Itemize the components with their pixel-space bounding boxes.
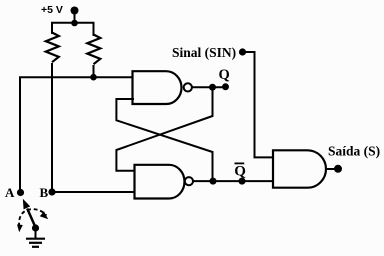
node A: [17, 189, 24, 196]
wire +5V stub: [74, 11, 76, 24]
wire U1 output to Q: [192, 86, 226, 88]
label Qbar: [234, 163, 246, 179]
wire A bus to upper NAND input: [20, 77, 133, 192]
wire U2 output to AND gate: [193, 180, 274, 182]
wire Qbar to upper NAND input (cross-coupling): [116, 99, 212, 181]
wire node B to lower NAND input: [52, 191, 137, 193]
label Q: [219, 67, 230, 83]
node SIN terminal: [239, 48, 246, 55]
svg-text:Q: Q: [219, 67, 230, 83]
svg-text:Q: Q: [234, 164, 246, 180]
junction Qbar feedback: [210, 178, 217, 185]
node Qbar terminal: [239, 178, 246, 185]
node B: [48, 188, 55, 195]
resistor R1: [46, 33, 59, 63]
wire U3 output: [326, 168, 335, 170]
resistor R2: [87, 35, 100, 65]
wire SIN to AND gate input: [243, 52, 275, 157]
nand U1: [133, 71, 182, 104]
bubble U2: [185, 177, 193, 185]
label +5 V: [41, 4, 63, 16]
svg-text:+5 V: +5 V: [41, 4, 63, 16]
+5V terminal dot: [71, 7, 79, 15]
svg-text:A: A: [5, 185, 15, 200]
switch pivot node: [32, 224, 39, 231]
switch lever SW1: [23, 199, 36, 228]
wire R2 bottom lead: [93, 65, 95, 77]
junction Q feedback: [209, 84, 216, 91]
label Sinal (SIN): [172, 45, 236, 60]
wire top rail: [52, 23, 94, 36]
node Q terminal: [222, 83, 229, 90]
wire Q to lower NAND input (cross-coupling): [116, 87, 212, 171]
label Saida (S): [328, 144, 380, 159]
svg-text:Sinal (SIN): Sinal (SIN): [172, 45, 236, 60]
label B: [40, 185, 49, 200]
junction R2 / A bus: [90, 74, 97, 81]
junction +5V rail: [71, 20, 78, 27]
svg-text:B: B: [40, 185, 49, 200]
bubble U1: [184, 83, 192, 91]
and U3: [273, 150, 326, 187]
label A: [5, 185, 15, 200]
wire pivot to ground: [35, 228, 37, 239]
node S terminal: [334, 165, 342, 173]
switch throw arc (dashed): [17, 209, 48, 232]
wire R1 bottom to node B: [51, 63, 53, 192]
ground: [26, 239, 45, 247]
svg-text:Saída (S): Saída (S): [328, 144, 380, 159]
nand U2: [135, 165, 185, 199]
